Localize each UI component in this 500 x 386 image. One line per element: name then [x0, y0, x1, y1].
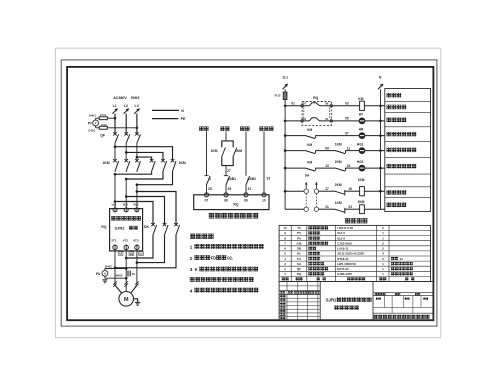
- svg-text:09: 09: [325, 146, 329, 150]
- wire 2KM pole A to L1: [114, 172, 152, 176]
- terminal 2T1: [113, 244, 117, 251]
- breaker QF pole 1: [113, 132, 118, 143]
- breaker QF label: [100, 134, 105, 138]
- node 29: [228, 187, 232, 191]
- svg-text:AD11-25/20 AC220V: AD11-25/20 AC220V: [337, 252, 364, 256]
- contactor 2KM pole C: [171, 159, 176, 172]
- cable mark T1: [113, 281, 117, 286]
- outer border frame: [61, 60, 437, 326]
- svg-text:DZ47-60: DZ47-60: [337, 267, 349, 271]
- svg-text:LA19-11: LA19-11: [337, 247, 348, 251]
- svg-text:PV: PV: [297, 231, 301, 235]
- selector SA arrows: [305, 182, 318, 189]
- label 1L1 bus: [282, 76, 288, 80]
- button SB2: [246, 176, 250, 185]
- svg-text:PA: PA: [96, 272, 101, 276]
- node 27: [227, 169, 231, 173]
- contact 1KM row4: [336, 150, 346, 153]
- starter relay box RQ label: [313, 96, 318, 100]
- caption secondary circuit: [345, 218, 368, 223]
- motor M: [119, 292, 134, 307]
- breaker QF pole 3: [135, 132, 140, 143]
- svg-text:3: 3: [190, 267, 193, 272]
- wire K to terminal: [206, 185, 208, 195]
- svg-text:C2: C2: [139, 252, 143, 256]
- svg-text:08: 08: [224, 199, 228, 203]
- contactor 1KM label: [102, 161, 109, 165]
- BOM row lines: [279, 231, 430, 277]
- svg-text:B402: B402: [116, 274, 123, 278]
- inner border frame: [67, 67, 433, 320]
- contactor DK label: [144, 225, 149, 229]
- fuse FU3: [275, 92, 287, 99]
- ground at motor: [135, 302, 140, 305]
- contactor DK pole 2: [163, 223, 168, 235]
- wire 1KM/2KM parallel join: [222, 157, 233, 176]
- svg-text:10: 10: [283, 226, 287, 230]
- relay contact row2: [303, 117, 329, 121]
- wire voltmeter top: [96, 118, 115, 120]
- lamp HY: [359, 113, 365, 124]
- supply entry arrow 1L1: [283, 84, 289, 90]
- svg-text:SJR2: SJR2: [115, 225, 126, 230]
- cable mark T2: [124, 281, 128, 286]
- wire L3 into starter: [136, 185, 139, 209]
- svg-text:1: 1: [190, 245, 193, 250]
- wire row3 to N: [365, 135, 385, 137]
- contactor DK pole 3: [174, 223, 179, 235]
- contact K label: [209, 177, 212, 181]
- label B402: [116, 274, 123, 278]
- bus 1L1: [284, 89, 287, 209]
- svg-text:KM: KM: [307, 143, 312, 147]
- svg-text:HL: HL: [297, 252, 301, 256]
- svg-text:CJX2-0910: CJX2-0910: [337, 242, 352, 246]
- BOM header row: [282, 277, 415, 280]
- wire phase L2 drop: [125, 114, 127, 134]
- wire row2 left: [285, 120, 333, 123]
- contact 1KM row7: [325, 208, 345, 214]
- contactor 1KM pole 1: [113, 159, 118, 172]
- svg-text:10: 10: [262, 199, 266, 203]
- wire T2 to motor: [125, 251, 127, 292]
- svg-text:FU: FU: [297, 257, 301, 261]
- terminal 10: [262, 193, 266, 203]
- wire SB1 to terminal: [225, 185, 227, 195]
- contact 1KM aux: [222, 147, 226, 157]
- starter relay dashed box: [302, 101, 331, 125]
- svg-text:25: 25: [208, 187, 212, 191]
- relay box dashed links: [304, 108, 330, 119]
- node 05: [345, 117, 349, 121]
- wire row7 right: [345, 208, 360, 210]
- button SB1 label: [227, 177, 236, 181]
- contactor coil 2KM: [358, 200, 365, 213]
- svg-text:2KM: 2KM: [335, 160, 342, 164]
- svg-text:SB1: SB1: [230, 177, 237, 181]
- wire row2 to N: [365, 120, 385, 122]
- svg-text:50HZ: 50HZ: [131, 96, 141, 100]
- title block right grid: [373, 293, 433, 314]
- wire tag B2: [129, 252, 134, 256]
- terminal label 6T3: [133, 238, 139, 242]
- wire row4 mid: [316, 150, 336, 152]
- svg-text:DK: DK: [144, 225, 149, 229]
- notes line 4: [190, 288, 259, 294]
- title text line1: [326, 297, 372, 302]
- node 13: [325, 164, 329, 168]
- label N: [152, 109, 184, 113]
- svg-text:17: 17: [325, 187, 329, 191]
- svg-text:A401: A401: [89, 113, 97, 117]
- svg-text:RT18-32: RT18-32: [337, 257, 349, 261]
- wire row4 right: [346, 150, 360, 152]
- svg-text:4: 4: [190, 288, 193, 293]
- wire row6 to N: [364, 190, 384, 192]
- svg-text:21: 21: [325, 205, 329, 209]
- title block outer: [279, 282, 433, 321]
- wire row4 left: [285, 150, 306, 152]
- wire SB2 to terminal: [245, 185, 247, 195]
- node 07: [345, 131, 349, 135]
- svg-text:L2: L2: [124, 104, 128, 108]
- cable mark T3: [135, 281, 139, 286]
- svg-text:RQ: RQ: [233, 202, 238, 206]
- svg-text:2KM: 2KM: [358, 200, 365, 204]
- wire L1 to DK pole 1: [115, 202, 153, 225]
- svg-text:1KM: 1KM: [102, 161, 109, 165]
- wire L1 to 1KM: [114, 144, 116, 161]
- terminal 3L2: [124, 208, 128, 212]
- BOM table box: [279, 225, 430, 281]
- svg-text:03: 03: [345, 102, 349, 106]
- wire row2 right: [320, 120, 360, 122]
- label B401: [105, 265, 112, 269]
- wire row3 left: [285, 135, 306, 137]
- svg-text:27: 27: [227, 169, 231, 173]
- button SB2 label: [247, 177, 256, 181]
- node 31: [248, 187, 252, 191]
- svg-text:29: 29: [228, 187, 232, 191]
- supply entry arrow L1: [112, 108, 118, 114]
- svg-text:SB2: SB2: [250, 177, 257, 181]
- svg-text:5L3: 5L3: [133, 203, 139, 207]
- terminal 5L3: [135, 208, 139, 212]
- svg-text:04: 04: [325, 117, 329, 121]
- svg-text:LW5-15D0723: LW5-15D0723: [337, 262, 356, 266]
- svg-text:03: 03: [303, 117, 307, 121]
- control terminal box: [194, 195, 269, 210]
- wire row3 right: [316, 135, 360, 137]
- svg-text:6T3: 6T3: [133, 238, 139, 242]
- label C401: [88, 129, 96, 133]
- svg-text:1L1: 1L1: [282, 76, 288, 80]
- svg-text:09: 09: [244, 199, 248, 203]
- svg-text:QF: QF: [100, 134, 105, 138]
- svg-text:PE: PE: [181, 117, 186, 121]
- wire L3 to DK pole 3: [137, 192, 176, 225]
- contact 2KM row6 label: [335, 183, 342, 187]
- svg-text:6L2-V: 6L2-V: [337, 231, 345, 235]
- notes title: [190, 234, 214, 239]
- notes line 3: [190, 267, 258, 273]
- svg-text:HR: HR: [359, 127, 364, 131]
- contact 2KM row6: [325, 190, 345, 196]
- lamp HG1: [357, 142, 365, 153]
- svg-text:L1: L1: [113, 104, 117, 108]
- lamp HG2: [357, 160, 365, 171]
- node 23: [348, 205, 352, 209]
- selector SA label: [305, 174, 310, 178]
- svg-text:2KM: 2KM: [179, 161, 186, 165]
- title block small labels: [280, 291, 320, 319]
- notes line 2: [190, 255, 233, 261]
- function table box: [385, 89, 431, 212]
- node 17: [325, 187, 329, 191]
- wire L3 to 1KM: [136, 144, 139, 161]
- svg-text:4A: 4A: [400, 257, 404, 261]
- wire 2KM pole C to L3: [136, 172, 173, 186]
- contact KM row5: [306, 168, 316, 171]
- motor ground wire: [134, 299, 138, 303]
- svg-text:11: 11: [347, 146, 351, 150]
- wire row5 right: [346, 167, 360, 169]
- wire L1 to 2KM pole C: [115, 147, 173, 160]
- function table row lines: [385, 101, 431, 197]
- wire DK pole 1 bypass: [125, 235, 153, 259]
- svg-text:33: 33: [267, 176, 271, 180]
- ammeter PA: [96, 270, 108, 276]
- svg-text:02.: 02.: [227, 255, 233, 260]
- wire tag A2: [118, 252, 123, 256]
- contactor 2KM pole A: [150, 159, 155, 172]
- svg-text:3L2: 3L2: [123, 203, 129, 207]
- wire L1 into starter: [114, 174, 117, 208]
- wire row7 to N: [364, 208, 384, 210]
- node 33: [267, 176, 271, 180]
- function table labels: [387, 93, 417, 207]
- label stop column: [220, 127, 229, 131]
- supply entry arrow N: [378, 84, 384, 90]
- page border: [55, 48, 440, 337]
- svg-text:FD: FD: [211, 255, 217, 260]
- wire row5 left: [285, 167, 306, 169]
- wire CT loop bottom: [105, 276, 128, 279]
- notes line 1: [190, 244, 264, 250]
- svg-text:LMZJ1-0.66: LMZJ1-0.66: [337, 226, 353, 230]
- wire L2 to 1KM: [125, 144, 128, 161]
- node 15: [347, 164, 351, 168]
- title block right labels: [375, 293, 428, 300]
- terminal 1L1: [113, 208, 117, 212]
- selector SA linkage: [306, 194, 316, 207]
- contact KM row3: [306, 135, 316, 138]
- BOM items: [283, 226, 412, 276]
- selector SA contacts row7: [304, 207, 319, 211]
- svg-text:A2: A2: [119, 252, 123, 256]
- svg-text:31: 31: [248, 187, 252, 191]
- wire row5 mid: [316, 167, 336, 169]
- svg-text:A: A: [104, 272, 106, 276]
- terminal label 1L1: [111, 203, 117, 207]
- terminal 6T3: [135, 244, 139, 251]
- caption control terminals: [209, 213, 259, 219]
- svg-text:HG2: HG2: [357, 160, 364, 164]
- wire DK pole 2 bypass: [136, 235, 165, 264]
- terminal 09: [244, 193, 248, 203]
- svg-text:RQ: RQ: [313, 96, 318, 100]
- svg-text:2: 2: [190, 256, 193, 261]
- lamp HR: [359, 127, 365, 138]
- contact KM row3 label: [307, 128, 312, 132]
- contact 2KM aux label: [235, 149, 242, 153]
- contact KM row4 label: [307, 143, 312, 147]
- svg-text:15: 15: [347, 164, 351, 168]
- fuse FU2: [99, 123, 107, 129]
- soft starter RQ box: [110, 209, 143, 251]
- contactor 2KM pole B: [161, 159, 166, 172]
- bus N: [379, 89, 382, 209]
- svg-text:2T1: 2T1: [111, 238, 117, 242]
- node 03: [345, 102, 349, 106]
- label PE: [152, 117, 186, 121]
- terminal label 5L3: [133, 203, 139, 207]
- wire 1KM/2KM parallel split: [222, 141, 233, 148]
- svg-text:N: N: [181, 109, 184, 113]
- breaker QF pole 2: [124, 132, 129, 143]
- svg-text:L3: L3: [135, 104, 139, 108]
- wire tag C2: [139, 252, 144, 256]
- svg-text:C401: C401: [88, 129, 96, 133]
- supply entry arrow L2: [124, 108, 130, 114]
- node 25: [208, 187, 212, 191]
- svg-text:1KM: 1KM: [358, 178, 365, 182]
- contact 2KM row5: [336, 168, 346, 171]
- supply entry arrow L3: [134, 108, 140, 114]
- label instant-stop column: [199, 127, 208, 131]
- wire CT loop top: [105, 267, 128, 270]
- wire L3 to 2KM pole A: [137, 157, 152, 160]
- svg-text:SJR2: SJR2: [326, 297, 338, 302]
- wire stop stem: [225, 131, 227, 141]
- terminal 08: [224, 193, 228, 203]
- node 11: [347, 146, 351, 150]
- title block left verticals: [287, 282, 318, 321]
- label L1: [113, 104, 117, 108]
- notes line 3b: [190, 277, 254, 282]
- wire common stem: [263, 131, 265, 194]
- voltmeter PV: [88, 120, 99, 126]
- contactor coil KM: [358, 97, 364, 110]
- wire DK pole 3 bypass: [114, 235, 176, 269]
- svg-text:SJR2-3055: SJR2-3055: [337, 272, 352, 276]
- wire L2 to 2KM pole B: [126, 152, 163, 160]
- terminal label 2T1: [111, 238, 117, 242]
- wire L2 into starter: [125, 179, 128, 209]
- svg-text:4T2: 4T2: [123, 238, 129, 242]
- wire phase L3 drop: [136, 114, 139, 134]
- contact KM row4: [306, 150, 316, 153]
- node 01: [291, 101, 295, 105]
- contact KM row5 label: [307, 160, 312, 164]
- wire row1 to N: [364, 105, 384, 107]
- svg-text:SA: SA: [305, 174, 310, 178]
- terminal 4T2: [124, 244, 128, 251]
- wire start stem: [245, 131, 247, 175]
- company name: [374, 315, 430, 319]
- svg-text:KM: KM: [307, 128, 312, 132]
- terminal 07: [204, 193, 208, 203]
- wire L2 to DK pole 2: [126, 197, 164, 225]
- ground at ammeter: [102, 276, 107, 283]
- contactor coil 1KM: [358, 178, 365, 196]
- fuse FU1: [99, 113, 107, 119]
- label start column: [240, 127, 249, 131]
- title block main verticals: [320, 282, 373, 321]
- svg-text:19: 19: [348, 187, 352, 191]
- svg-text:V: V: [95, 121, 97, 125]
- contact K: [204, 176, 210, 186]
- svg-text:1KM: 1KM: [335, 201, 342, 205]
- BOM column lines: [291, 225, 389, 281]
- svg-text:23: 23: [348, 205, 352, 209]
- wire row5 to N: [365, 167, 385, 169]
- soft starter name text: [111, 216, 141, 221]
- svg-text:07: 07: [345, 131, 349, 135]
- selector SA contacts row6: [304, 189, 319, 193]
- svg-text:KM: KM: [307, 160, 312, 164]
- contact 1KM row4 label: [335, 142, 342, 146]
- svg-text:KM: KM: [297, 242, 302, 246]
- wire voltmeter bottom: [96, 126, 137, 128]
- svg-text:B2: B2: [130, 252, 134, 256]
- svg-text:AC380V: AC380V: [113, 96, 127, 100]
- svg-text:01: 01: [291, 101, 295, 105]
- soft starter series text: [115, 225, 138, 230]
- wire T1 to motor: [115, 251, 122, 293]
- terminal label 4T2: [123, 238, 129, 242]
- label L2: [124, 104, 128, 108]
- wire row1 right: [320, 105, 360, 107]
- svg-text:RQ: RQ: [297, 272, 302, 276]
- label L3: [135, 104, 139, 108]
- svg-text:6L2-A: 6L2-A: [337, 236, 346, 240]
- label A401: [89, 113, 97, 117]
- node 21: [325, 205, 329, 209]
- svg-text:07: 07: [205, 199, 209, 203]
- label N bus: [379, 76, 382, 80]
- svg-text:1KM: 1KM: [211, 149, 218, 153]
- svg-text:07: 07: [303, 102, 307, 106]
- wire row6 left: [285, 190, 325, 192]
- svg-text:QF: QF: [297, 267, 301, 271]
- svg-text:KM: KM: [358, 97, 363, 101]
- svg-text:FU3: FU3: [275, 93, 281, 97]
- wire T3 to motor: [131, 251, 137, 293]
- contact 2KM row5 label: [335, 160, 342, 164]
- wire 2KM pole B to L2: [125, 172, 163, 181]
- label common column: [259, 127, 273, 131]
- contactor 1KM pole 3: [135, 159, 140, 172]
- svg-text:08: 08: [325, 102, 329, 106]
- node 19: [348, 187, 352, 191]
- svg-text:05: 05: [345, 117, 349, 121]
- svg-text:1KM: 1KM: [335, 142, 342, 146]
- wire row7 left: [285, 208, 325, 210]
- contactor 2KM label: [179, 161, 186, 165]
- svg-text:1L1: 1L1: [111, 203, 117, 207]
- contact 2KM aux: [233, 147, 237, 157]
